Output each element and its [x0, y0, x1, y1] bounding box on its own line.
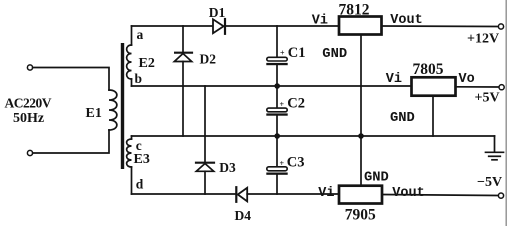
svg-text:Vo: Vo — [459, 72, 475, 87]
AC source terminal bottom — [27, 150, 32, 155]
svg-text:C3: C3 — [287, 155, 305, 171]
wire: 7812 Vout to +12V terminal — [382, 25, 499, 28]
secondary winding E2 — [127, 26, 132, 86]
svg-text:+12V: +12V — [467, 32, 499, 47]
junction: GND line / common rail — [358, 133, 364, 139]
terminal +5V — [499, 85, 504, 90]
junction: b rail / C1 / C2 — [274, 83, 280, 89]
svg-text:Vi: Vi — [312, 13, 328, 28]
wire: regulators GND line — [360, 35, 362, 186]
capacitor C2 — [266, 86, 287, 136]
svg-text:Vout: Vout — [392, 186, 424, 201]
svg-text:50Hz: 50Hz — [13, 111, 44, 126]
svg-text:D4: D4 — [235, 208, 252, 223]
svg-text:Vi: Vi — [386, 72, 402, 87]
diode D2 — [174, 53, 192, 62]
wire: D2 to common rail — [182, 62, 184, 137]
secondary winding E3 — [127, 136, 132, 194]
svg-text:+: + — [280, 49, 285, 58]
svg-text:E1: E1 — [86, 106, 102, 121]
wire: D3 to node d rail — [204, 171, 206, 194]
wire: 7905 Vout to -5V terminal — [382, 195, 498, 196]
terminal +12V — [498, 24, 503, 29]
svg-text:−5V: −5V — [477, 175, 502, 190]
regulator U3 7905 — [339, 186, 382, 204]
svg-text:7812: 7812 — [339, 1, 370, 18]
diode D1 — [213, 19, 225, 34]
svg-text:GND: GND — [364, 170, 389, 185]
wire: 7805 GND to common rail — [432, 96, 434, 136]
wire: node a to D1 — [132, 25, 213, 27]
primary winding E1 — [109, 90, 117, 130]
wire: common rail (center tap c) — [132, 135, 495, 137]
svg-text:7905: 7905 — [345, 207, 376, 224]
figure right edge rule — [505, 0, 507, 226]
svg-text:C2: C2 — [287, 96, 305, 112]
transformer core — [121, 43, 124, 169]
svg-text:d: d — [136, 176, 144, 191]
diode D4 — [236, 187, 247, 202]
wire: 7805 Vo to +5V terminal — [456, 86, 500, 88]
wire: common rail drop to earth — [494, 136, 496, 152]
diode D3 — [196, 163, 214, 172]
svg-text:D3: D3 — [219, 160, 236, 175]
svg-text:Vi: Vi — [318, 186, 334, 201]
svg-text:D1: D1 — [209, 5, 226, 20]
terminal -5V — [498, 193, 503, 198]
svg-text:a: a — [137, 27, 144, 42]
svg-text:AC220V: AC220V — [5, 96, 52, 111]
wire: D4 to 7905 Vi — [247, 193, 339, 195]
wire: AC bottom lead — [33, 130, 109, 153]
regulator U2 7805 — [412, 77, 456, 95]
svg-text:GND: GND — [390, 111, 415, 126]
svg-text:D2: D2 — [200, 52, 217, 67]
svg-text:+: + — [280, 100, 285, 109]
capacitor C1 — [266, 26, 287, 86]
wire: node d rail from E3 to D4 — [132, 193, 237, 195]
wire: D1 to 7812 Vi — [226, 25, 339, 27]
svg-text:E2: E2 — [139, 56, 155, 71]
svg-text:C1: C1 — [288, 45, 306, 61]
svg-text:b: b — [135, 71, 143, 86]
capacitor C3 — [266, 136, 287, 194]
wire: b to D3 column — [204, 86, 206, 162]
svg-text:Vout: Vout — [390, 13, 422, 28]
wire: AC top lead — [33, 68, 109, 91]
regulator U1 7812 — [339, 17, 382, 35]
svg-text:E3: E3 — [134, 152, 150, 167]
svg-text:+5V: +5V — [475, 91, 500, 106]
svg-text:+: + — [280, 159, 285, 168]
svg-text:c: c — [136, 138, 142, 153]
svg-text:GND: GND — [322, 47, 347, 62]
wire: node b rail — [132, 85, 412, 87]
ground (earth) — [486, 152, 504, 160]
junction: common rail / C2 / C3 — [274, 133, 280, 139]
diode D2 column wire — [182, 26, 184, 52]
AC source terminal top — [27, 65, 32, 70]
svg-text:7805: 7805 — [413, 61, 444, 78]
